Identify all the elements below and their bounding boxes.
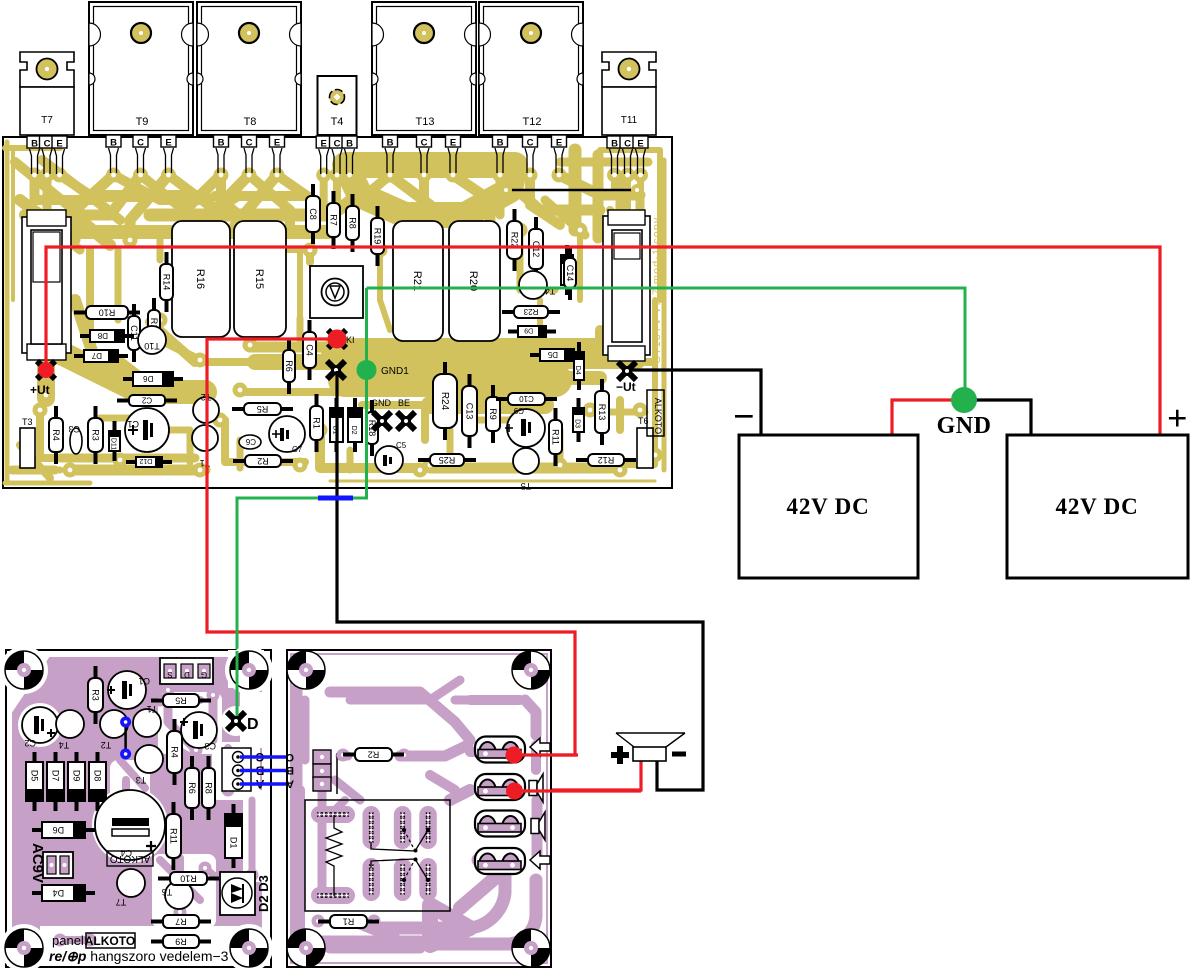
transistor T10 [138,326,166,354]
capacitor C2 [117,395,177,406]
trimmer P1 [310,266,363,318]
svg-text:C2: C2 [141,395,152,404]
connector right board [313,750,337,794]
svg-text:D4: D4 [574,366,581,375]
speaker plus [611,746,629,764]
svg-text:S: S [167,670,172,679]
svg-text:R9: R9 [488,408,498,420]
transistor T11 [602,52,656,135]
transistor T1 [133,704,161,737]
wire red speaker + [516,758,641,790]
svg-text:C: C [421,138,428,149]
svg-text:R2: R2 [257,456,269,466]
transistor T6 [162,881,193,909]
D pad (green wire target) [227,712,245,730]
transistor T2 [193,392,219,423]
transistor T13 [372,2,476,135]
svg-text:C10: C10 [519,394,534,403]
svg-text:42V DC: 42V DC [787,494,870,519]
svg-text:D8: D8 [93,770,103,782]
svg-text:B: B [611,139,618,150]
T3 connector [20,417,35,468]
transistor T9 [89,2,193,135]
group icons [530,738,550,756]
resistor R9 [151,935,211,948]
svg-text:T9: T9 [136,116,149,128]
GND1 green dot [357,360,377,380]
resistor R22 [507,209,522,271]
resistor R7 [151,915,211,928]
svg-text:R1: R1 [343,916,355,926]
svg-text:GND: GND [371,398,392,408]
C3 cap [180,712,217,751]
svg-text:−: − [733,396,755,438]
diode D12 [126,457,172,467]
svg-text:D5: D5 [30,770,40,782]
C4 big cap [95,790,165,860]
svg-text:T10: T10 [144,341,160,351]
AC connector [43,852,73,878]
resistor R19 [371,206,384,266]
diode D5 [530,349,584,361]
svg-text:C12: C12 [531,241,541,258]
svg-text:GND: GND [937,413,992,439]
svg-text:R10: R10 [99,307,116,317]
svg-text:C8: C8 [308,208,318,220]
svg-text:C: C [334,139,341,150]
transistor T12 [479,2,583,135]
transistor T5 [513,448,539,491]
svg-text:R7: R7 [329,214,339,226]
resistor R8 [346,194,359,252]
resistor R6 [283,338,295,394]
svg-text:T8: T8 [244,116,257,128]
KI pad [328,330,346,348]
fiducials right board [287,651,325,689]
relay outline [305,800,450,911]
speaker contact groups [475,737,525,763]
purple traces left board [12,657,262,962]
diode D9 [508,326,556,337]
svg-text:E: E [637,139,643,150]
capacitor C10 [496,393,557,405]
svg-text:R1: R1 [312,417,322,429]
svg-text:C3: C3 [68,424,80,434]
svg-text:R24: R24 [439,392,450,411]
svg-text:T6: T6 [162,887,173,897]
svg-text:ALKOTO: ALKOTO [110,853,151,864]
svg-text:E: E [56,139,62,150]
wire red KI to protection board [207,339,575,755]
svg-text:R23: R23 [523,307,538,316]
svg-text:R5: R5 [257,404,269,414]
resistor R2 [233,455,293,467]
svg-text:D11: D11 [110,438,117,450]
svg-text:R13: R13 [597,404,607,421]
svg-text:T7: T7 [41,115,53,126]
svg-text:C14: C14 [565,265,575,282]
diode D5 [26,752,43,811]
capacitor C4 [303,320,316,380]
svg-text:B: B [387,138,394,149]
speaker minus [672,752,686,757]
ALKOTO logo amp [647,390,664,436]
capacitor C12 [529,217,543,281]
C7 [269,416,305,454]
blue jumper dots [124,722,127,754]
svg-text:D9: D9 [524,327,533,334]
svg-text:G: G [201,670,207,679]
resistor R10 [74,306,140,319]
fuse holder right F2 [603,210,650,361]
resistor R23 [502,306,560,318]
svg-text:R14: R14 [162,274,172,291]
svg-text:C: C [246,138,253,149]
svg-text:T1: T1 [147,704,158,714]
diode D8 [80,330,134,342]
resistor R12 [576,454,636,466]
blue crossover segment [318,496,353,501]
green wire overlay into left board [236,651,239,716]
T6 connector [637,416,653,468]
svg-text:E: E [165,138,171,149]
capacitor C11 [128,304,140,362]
svg-text:D7: D7 [51,770,61,782]
GND1 left xpad [327,361,345,379]
svg-text:ALKOTO: ALKOTO [85,934,135,948]
fiducials left board [5,651,43,689]
R16 power resistor [172,221,230,337]
svg-text:D5: D5 [547,350,558,359]
capacitor C14 [564,246,576,300]
svg-text:C4: C4 [305,344,315,356]
svg-text:E: E [556,138,562,149]
svg-text:T3: T3 [22,417,33,427]
svg-text:C13: C13 [465,403,475,420]
resistor R3 [88,406,103,464]
transistor T4 [519,271,555,299]
svg-text:R19: R19 [373,228,383,245]
svg-text:R8: R8 [348,217,358,229]
svg-text:T4: T4 [59,740,70,750]
C2 cap [22,707,58,748]
svg-text:R16: R16 [194,269,206,289]
svg-text:C: C [624,139,631,150]
svg-text:R4: R4 [170,746,180,758]
resistor R5 [232,403,293,415]
svg-text:B: B [497,138,504,149]
C1 big cap [125,408,169,452]
resistor R4 [167,719,182,785]
svg-text:D6: D6 [53,825,65,835]
svg-text:R25: R25 [439,455,456,465]
R20 power resistor [449,221,500,341]
resistor R7 [327,191,340,249]
svg-text:R6: R6 [187,782,197,794]
relay contact symbols [371,830,428,851]
resistor R11 [549,408,562,466]
svg-text:R2: R2 [368,749,380,759]
relay coil pads [311,806,355,823]
svg-text:D7: D7 [91,351,102,360]
amplifier PCB board outline [3,137,672,488]
svg-text:D2 D3: D2 D3 [256,875,271,912]
wire green GND1 net [237,288,965,720]
svg-text:T5: T5 [521,481,532,491]
svg-text:R10: R10 [180,873,197,883]
diode D7 [74,350,128,362]
svg-text:R12: R12 [598,455,615,465]
svg-text:C9: C9 [513,406,524,415]
resistor R9 [486,385,500,443]
svg-text:42V DC: 42V DC [1056,494,1139,519]
svg-text:C1: C1 [138,676,150,686]
resistor R18 [366,400,378,456]
resistor R5 [151,694,211,707]
copper traces amp board [5,142,10,480]
relay coil resistor symbol [326,815,342,896]
svg-text:R3: R3 [91,429,101,441]
transistor T7 [116,869,145,907]
transistor T2 [100,710,128,750]
svg-text:ALKOTO: ALKOTO [653,398,663,434]
svg-text:E: E [321,139,327,150]
resistor R3 [88,666,103,724]
svg-text:C6: C6 [245,437,256,446]
svg-text:GND1: GND1 [381,366,409,377]
svg-text:−Ut: −Ut [616,380,636,394]
svg-text:D: D [184,670,190,679]
svg-text:+: + [1167,398,1188,438]
right protection board outline [287,650,551,967]
transistor T7 [20,52,74,135]
R21 power resistor [393,221,443,341]
diode D7 [47,752,64,811]
GND node dot [951,387,977,413]
diode D10 [561,245,573,295]
resistor R13 [595,379,609,445]
+Ut pad [37,361,55,379]
diode D2 [348,398,362,452]
svg-text:T2: T2 [101,740,112,750]
wire black -Ut to left 42V box [631,370,761,434]
svg-text:T1: T1 [200,458,211,468]
svg-text:T11: T11 [621,115,638,126]
svg-text:C5: C5 [396,441,407,450]
C6 [239,435,261,449]
diode D1 [330,398,343,452]
svg-text:B: B [218,138,225,149]
VIKOID logo [107,851,153,866]
transistor T4 [56,710,84,750]
svg-text:+Ut: +Ut [30,383,50,397]
C1 cap [107,671,150,709]
resistor R2 [343,748,404,761]
wire black GND dot to right box [970,400,1031,434]
svg-text:R15: R15 [253,269,265,289]
svg-text:E: E [274,138,280,149]
blue wires ABC [240,755,318,758]
svg-text:C: C [137,138,144,149]
svg-text:T7: T7 [116,897,127,907]
resistor R17 [148,298,160,354]
svg-text:T12: T12 [523,116,542,128]
svg-text:D1: D1 [229,837,239,849]
svg-text:ST15TV v7.7 mod-1:copy: ST15TV v7.7 mod-1:copy [651,217,663,364]
svg-text:T3: T3 [136,775,147,785]
resistor R11 [166,802,181,870]
diode D9 [68,752,85,811]
svg-text:R3: R3 [91,689,101,701]
svg-text:D12: D12 [139,457,152,464]
diode D11 [109,421,120,461]
C3 [68,424,82,454]
svg-text:C: C [286,751,294,763]
svg-text:D8: D8 [97,331,108,340]
wire black amp pad to speaker - [337,371,703,790]
resistor R8 [202,756,215,820]
svg-text:B: B [286,764,294,776]
svg-text:R5: R5 [175,695,187,705]
diode D6 [123,372,183,386]
svg-text:panel:: panel: [52,933,87,948]
red wire overlays over icons [516,753,578,756]
svg-text:D2: D2 [350,426,357,435]
C9 [505,406,545,447]
svg-text:B: B [346,139,353,150]
wire red +Ut to right 42V box [46,247,1160,434]
resistor R1 [310,394,323,452]
diode D1 [225,804,242,868]
svg-text:D9: D9 [72,770,82,782]
svg-text:re/⊕p hangszoro vedelem−3: re/⊕p hangszoro vedelem−3 [49,948,229,964]
42V DC box left [739,435,918,578]
svg-text:C2: C2 [24,738,36,748]
red pad dots [506,747,523,764]
svg-text:R8: R8 [204,782,214,794]
resistor R6 [185,756,199,820]
C5 [375,441,407,474]
svg-text:R4: R4 [51,429,61,441]
speaker symbol [616,733,685,761]
svg-text:E: E [450,138,456,149]
svg-text:R11: R11 [169,828,179,844]
svg-text:R6: R6 [284,360,294,372]
svg-text:C: C [44,139,51,150]
relay contact stadiums [363,806,381,849]
svg-text:A: A [286,778,294,790]
resistor R4 [49,406,63,464]
resistor R24 [433,362,457,440]
svg-text:T13: T13 [416,116,435,128]
transistor T3 [135,745,163,785]
svg-text:C7: C7 [292,445,303,454]
jumper wire [506,189,637,192]
svg-text:BE: BE [398,398,410,408]
svg-text:B: B [31,139,38,150]
svg-text:D: D [247,716,259,733]
svg-text:D6: D6 [143,374,154,383]
transistor T4 [318,76,357,135]
resistor R10 [158,872,219,885]
diode D4 [32,885,95,901]
transistor T8 [197,2,301,135]
fuse holder left F1 [22,210,71,360]
svg-text:C: C [527,138,534,149]
svg-text:B: B [110,138,117,149]
wire red GND dot to left box [892,400,958,434]
svg-text:R9: R9 [175,936,187,946]
resistor R25 [418,454,476,466]
svg-text:D3: D3 [574,419,581,428]
svg-text:T4: T4 [331,116,344,128]
capacitor C13 [462,374,477,448]
D2 D3 LED block [220,872,255,915]
42V DC box right [1007,435,1188,578]
diode D8 [89,752,106,811]
svg-text:R7: R7 [175,916,187,926]
resistor R1 [318,915,379,928]
R15 power resistor [234,221,286,337]
svg-text:KI: KI [346,335,355,345]
diode D4 [574,342,584,390]
purple traces right board [297,688,420,948]
ABC connector [222,748,264,791]
KI red dot [328,330,347,349]
-Ut xpad [618,362,636,380]
connector G D S [160,658,213,684]
diode D6 [32,822,95,838]
svg-text:D4: D4 [53,888,65,898]
transistor T1 [192,425,218,468]
resistor R14 [160,252,173,312]
svg-text:R11: R11 [551,429,561,445]
left protection board outline [6,650,271,967]
capacitor C8 [306,184,320,244]
svg-text:C3: C3 [204,741,216,751]
diode D3 [573,398,584,442]
